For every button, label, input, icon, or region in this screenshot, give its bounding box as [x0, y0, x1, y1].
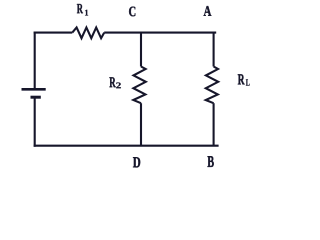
wire: top-left corner to resistor R1 — [34, 32, 73, 34]
node C label — [129, 7, 135, 17]
wire: node C to node A — [141, 32, 216, 34]
wire: resistor RL down to node B — [213, 103, 215, 146]
label RL letter R — [238, 74, 245, 84]
wire: node C down to resistor R2 — [140, 32, 142, 67]
resistor R1 — [72, 28, 104, 39]
label R2 letter R — [109, 77, 115, 87]
node A label — [204, 6, 212, 16]
battery negative short plate — [31, 96, 41, 99]
battery positive long plate — [22, 88, 46, 91]
resistor R2 — [133, 67, 146, 104]
label R1 letter R — [77, 4, 83, 13]
node B label — [208, 156, 214, 167]
wire: node A down to resistor RL — [213, 32, 215, 67]
resistor RL — [206, 67, 219, 104]
node D label — [133, 157, 140, 167]
label R1 subscript 1 — [85, 10, 88, 16]
label R2 subscript 2 — [116, 82, 121, 88]
label RL subscript L — [246, 79, 250, 85]
wire: battery positive plate up to top-left corner — [34, 32, 36, 90]
wire: resistor R1 to node C — [104, 32, 141, 34]
wire: battery negative plate down to bottom-left corner — [34, 97, 36, 147]
wire: resistor R2 down to node D — [140, 103, 142, 146]
wire: bottom return through node D and node B — [34, 145, 219, 147]
